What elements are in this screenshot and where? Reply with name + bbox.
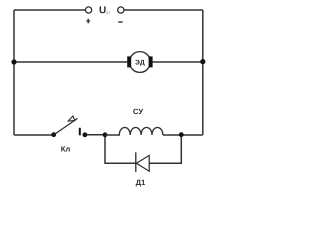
wire diode branch right rise (149, 135, 181, 163)
label + polarity (86, 19, 90, 24)
diode Д1 triangle (136, 155, 149, 171)
switch Кл fixed contact (79, 128, 81, 136)
label U subscript (106, 12, 110, 15)
label - polarity (118, 21, 122, 23)
wire motor line left (14, 61, 127, 63)
wire coil line right to right rail (163, 134, 203, 136)
motor brush left (127, 56, 131, 67)
diode Д1 cathode bar (135, 152, 137, 172)
motor brush right (149, 56, 153, 67)
switch Кл contact dot (83, 132, 88, 137)
inductor СУ winding (105, 127, 163, 135)
switch Кл lever (54, 118, 78, 134)
wire top-left from left rail to + terminal (14, 9, 85, 11)
terminal + (left supply terminal) (86, 7, 92, 13)
wire left rail (13, 10, 15, 135)
switch Кл handle flag (68, 116, 75, 121)
wire bottom from left rail corner to switch pivot (14, 134, 54, 136)
wire motor line right (153, 61, 203, 63)
label U supply voltage (100, 6, 106, 13)
wire top-right from - terminal to right rail (124, 9, 203, 11)
motor ЭД armature circle (130, 52, 151, 73)
wire right rail (202, 10, 204, 135)
wire diode branch left drop (105, 135, 136, 163)
node B junction right rail / motor line (200, 59, 205, 64)
node A junction left rail / motor line (11, 59, 16, 64)
label Кл (61, 146, 69, 151)
label СУ (133, 109, 143, 114)
wire from switch contact to coil node (85, 134, 105, 136)
node C junction coil-left / diode branch (103, 132, 108, 137)
switch Кл pivot dot (51, 132, 56, 137)
terminal - (right supply terminal) (118, 7, 124, 13)
label ЭД (135, 60, 144, 66)
node D junction coil-right / diode branch (179, 132, 184, 137)
label Д1 (136, 180, 145, 187)
